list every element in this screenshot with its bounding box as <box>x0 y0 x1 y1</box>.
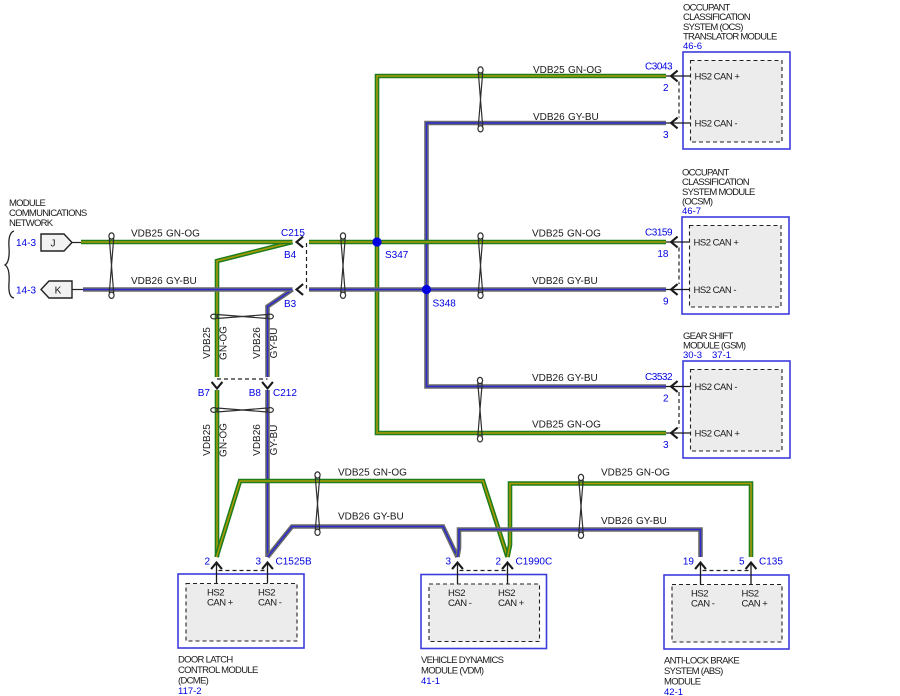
twisted-pair symbol below C212 <box>211 408 274 413</box>
svg-text:GY-BU: GY-BU <box>568 112 599 123</box>
twisted-pair symbol left of C215 <box>109 233 114 299</box>
module GSM title <box>683 331 746 352</box>
svg-text:HS2 CAN +: HS2 CAN + <box>695 429 741 440</box>
label VDB25 GN-OG <box>533 65 602 76</box>
in-line connector C215 pin B4 <box>281 228 305 261</box>
label VDB26 GY-BU <box>532 276 598 287</box>
wire VDB26 GY-BU riser from C3043 pin 3 through S348 to C3532 pin 2 <box>427 123 667 387</box>
svg-text:VDB25: VDB25 <box>533 65 565 76</box>
svg-text:VDB25: VDB25 <box>532 229 564 240</box>
svg-text:B4: B4 <box>284 250 297 261</box>
svg-text:2: 2 <box>663 394 669 405</box>
svg-text:GN-OG: GN-OG <box>373 468 407 479</box>
module OCS translator module page refs <box>683 41 702 52</box>
svg-text:S348: S348 <box>433 299 457 310</box>
svg-text:GN-OG: GN-OG <box>219 326 230 360</box>
svg-text:VDB26: VDB26 <box>252 327 263 359</box>
svg-text:GN-OG: GN-OG <box>568 65 602 76</box>
pin 3 HS2 CAN - of C1990C <box>445 557 471 610</box>
svg-text:CAN +: CAN + <box>498 598 525 609</box>
svg-text:CAN +: CAN + <box>207 598 234 609</box>
svg-text:C3159: C3159 <box>645 228 673 239</box>
wire VDB26 GY-BU from VDM pin 3 to ABS pin 19 <box>458 530 701 558</box>
svg-text:18: 18 <box>657 249 669 260</box>
wire VDB25 GN-OG branch B4 to B7 <box>217 242 293 377</box>
svg-text:C3532: C3532 <box>645 372 673 383</box>
svg-text:VDB25: VDB25 <box>532 420 564 431</box>
wire VDB25 GN-OG from VDM pin 2 to ABS pin 5 <box>508 484 752 558</box>
svg-text:VDB25: VDB25 <box>338 468 370 479</box>
svg-text:SYSTEM (ABS): SYSTEM (ABS) <box>664 666 723 677</box>
in-line connector C212 pin B8 <box>249 382 298 399</box>
connector C3532 dashed line <box>678 392 680 428</box>
pin 3 HS2 CAN + of C3532 <box>663 428 740 451</box>
label VDB25 GN-OG <box>338 468 407 479</box>
svg-text:CONTROL MODULE: CONTROL MODULE <box>178 665 258 676</box>
svg-text:14-3: 14-3 <box>16 238 36 249</box>
twisted-pair symbol above C212 <box>211 314 274 319</box>
svg-text:37-1: 37-1 <box>712 350 731 361</box>
svg-text:HS2 CAN -: HS2 CAN - <box>695 119 738 130</box>
svg-text:117-2: 117-2 <box>178 686 202 696</box>
module OCS translator module title <box>683 2 777 42</box>
pin 2 HS2 CAN + of C1525B <box>204 557 233 609</box>
svg-text:VDB25: VDB25 <box>601 468 633 479</box>
svg-text:41-1: 41-1 <box>421 676 440 687</box>
wire VDB25 GN-OG from J to C215 B4 <box>81 240 293 245</box>
brace for module communications network <box>5 231 14 298</box>
connector C1525B dashed line <box>219 570 266 572</box>
svg-text:VDB26: VDB26 <box>533 112 565 123</box>
svg-text:GY-BU: GY-BU <box>636 516 667 527</box>
svg-text:GY-BU: GY-BU <box>373 512 404 523</box>
pin 2 HS2 CAN + of C3043 <box>663 71 740 94</box>
module VDM box <box>421 575 547 649</box>
wire VDB26 GY-BU from DCME pin 3 to VDM pin 3 <box>268 527 458 558</box>
svg-text:CAN +: CAN + <box>742 599 769 610</box>
svg-text:2: 2 <box>663 83 669 94</box>
wire VDB26 GY-BU from K to C215 B3 <box>83 287 293 292</box>
svg-text:DOOR LATCH: DOOR LATCH <box>178 655 233 666</box>
twisted-pair symbol between S348 and C3159 <box>478 233 483 299</box>
module DCME title <box>178 655 258 687</box>
svg-text:MODULE (VDM): MODULE (VDM) <box>421 666 484 677</box>
svg-text:HS2 CAN +: HS2 CAN + <box>695 72 741 83</box>
wire VDB25 GN-OG from C215 to C3159 pin 18 <box>309 240 666 245</box>
svg-text:C3043: C3043 <box>645 62 673 73</box>
connector tag K <box>41 281 83 298</box>
module ABS module box <box>664 575 789 649</box>
label VDB26 GY-BU <box>338 512 404 523</box>
svg-text:GN-OG: GN-OG <box>166 229 200 240</box>
svg-text:VDB26: VDB26 <box>532 373 564 384</box>
svg-text:C135: C135 <box>759 557 783 568</box>
svg-text:C215: C215 <box>281 228 305 239</box>
connector C135 dashed line <box>703 570 750 572</box>
svg-text:3: 3 <box>255 557 261 568</box>
svg-text:VEHICLE DYNAMICS: VEHICLE DYNAMICS <box>421 655 504 666</box>
wire VDB26 GY-BU from C215 to C3159 pin 9 <box>309 287 666 292</box>
module OCSM box <box>682 217 789 314</box>
svg-text:GY-BU: GY-BU <box>166 276 197 287</box>
pin 9 HS2 CAN - of C3159 <box>663 284 736 307</box>
svg-text:C1990C: C1990C <box>516 557 553 568</box>
pin 3 HS2 CAN - of C3043 <box>663 118 737 141</box>
twisted-pair symbol between VDM and ABS <box>578 474 583 538</box>
svg-text:K: K <box>55 286 62 297</box>
svg-text:HS2 CAN -: HS2 CAN - <box>694 285 737 296</box>
pin 2 HS2 CAN + of C1990C <box>495 557 524 610</box>
svg-text:ANTI-LOCK BRAKE: ANTI-LOCK BRAKE <box>664 656 739 667</box>
label VDB25 GN-OG <box>532 420 601 431</box>
svg-text:C1525B: C1525B <box>276 557 312 568</box>
svg-text:CAN -: CAN - <box>691 599 715 610</box>
svg-text:VDB25: VDB25 <box>202 327 213 359</box>
svg-text:3: 3 <box>663 130 669 141</box>
module OCSM title <box>682 167 755 207</box>
label VDB25 GN-OG <box>532 229 601 240</box>
svg-text:2: 2 <box>495 557 501 568</box>
svg-text:46-6: 46-6 <box>683 41 702 52</box>
splice S347 <box>372 237 408 261</box>
connector tag J <box>41 234 81 251</box>
twisted-pair symbol on top pair to C3043 <box>478 67 483 132</box>
label VDB25 GN-OG <box>601 468 670 479</box>
svg-text:GY-BU: GY-BU <box>567 276 598 287</box>
wire VDB26 GY-BU branch B3 to B8 <box>268 290 293 378</box>
svg-text:9: 9 <box>663 297 669 308</box>
svg-text:B7: B7 <box>198 388 211 399</box>
svg-text:46-7: 46-7 <box>682 206 701 217</box>
twisted-pair symbol between C215 and S347 <box>340 233 345 299</box>
svg-text:GY-BU: GY-BU <box>269 425 280 456</box>
svg-text:VDB26: VDB26 <box>131 276 163 287</box>
svg-text:GN-OG: GN-OG <box>219 423 230 457</box>
svg-text:5: 5 <box>739 557 745 568</box>
wire VDB26 GY-BU from B8 to DCME pin 3 <box>265 390 270 557</box>
svg-text:GN-OG: GN-OG <box>567 229 601 240</box>
label VDB25 GN-OG <box>131 229 200 240</box>
svg-text:GN-OG: GN-OG <box>567 420 601 431</box>
svg-text:19: 19 <box>683 557 695 568</box>
svg-text:GY-BU: GY-BU <box>567 373 598 384</box>
svg-text:VDB26: VDB26 <box>338 512 370 523</box>
label VDB26 GY-BU <box>532 373 598 384</box>
twisted-pair symbol on pair to C3532 <box>477 377 482 442</box>
svg-text:C212: C212 <box>273 388 297 399</box>
connector C3043 dashed line <box>678 82 680 118</box>
svg-text:B3: B3 <box>284 299 297 310</box>
svg-text:3: 3 <box>445 557 451 568</box>
module VDM title <box>421 655 504 677</box>
module OCS translator module box <box>683 52 790 149</box>
svg-text:VDB25: VDB25 <box>131 229 163 240</box>
svg-text:VDB26: VDB26 <box>601 516 633 527</box>
svg-text:CAN -: CAN - <box>258 598 282 609</box>
in-line connector C215 pin B3 <box>284 284 303 310</box>
module GSM page refs <box>683 350 731 361</box>
svg-text:MODULE: MODULE <box>664 677 701 688</box>
svg-text:NETWORK: NETWORK <box>9 218 54 229</box>
splice S348 <box>422 285 456 310</box>
svg-text:HS2 CAN +: HS2 CAN + <box>694 238 740 249</box>
svg-text:VDB26: VDB26 <box>252 424 263 456</box>
pin 5 HS2 CAN + of C135 <box>739 557 768 610</box>
svg-text:14-3: 14-3 <box>16 286 36 297</box>
label MODULE COMMUNICATIONS NETWORK <box>9 198 87 229</box>
label VDB26 GY-BU <box>533 112 599 123</box>
connector C1990C dashed line <box>460 570 506 572</box>
label VDB26 GY-BU <box>601 516 667 527</box>
pin 19 HS2 CAN - of C135 <box>683 557 715 610</box>
module GSM box <box>683 361 790 458</box>
pin 2 HS2 CAN - of C3532 <box>663 381 737 404</box>
connector C3159 dashed line <box>678 248 680 285</box>
svg-text:(DCME): (DCME) <box>178 676 209 687</box>
svg-text:VDB26: VDB26 <box>532 276 564 287</box>
svg-text:3: 3 <box>663 440 669 451</box>
svg-text:J: J <box>51 239 56 250</box>
pin 18 HS2 CAN + of C3159 <box>657 237 739 260</box>
svg-text:2: 2 <box>204 557 210 568</box>
svg-text:42-1: 42-1 <box>664 687 683 696</box>
module OCSM page refs <box>682 206 701 217</box>
wire VDB25 GN-OG from DCME pin 2 to VDM pin 2 <box>217 481 508 557</box>
svg-text:CAN -: CAN - <box>448 598 472 609</box>
connector C212 dashed line <box>217 378 268 380</box>
svg-text:S347: S347 <box>385 250 409 261</box>
svg-text:30-3: 30-3 <box>683 350 702 361</box>
wire VDB25 GN-OG from B7 to DCME pin 2 <box>215 390 220 557</box>
label VDB26 GY-BU <box>131 276 197 287</box>
module ABS module title <box>664 656 739 688</box>
pin 3 HS2 CAN - of C1525B <box>255 557 281 609</box>
svg-text:GY-BU: GY-BU <box>269 328 280 359</box>
module DCME box <box>178 574 304 648</box>
connector C215 dashed line <box>306 243 308 289</box>
svg-text:GN-OG: GN-OG <box>636 468 670 479</box>
in-line connector C212 pin B7 <box>198 382 223 399</box>
svg-text:B8: B8 <box>249 388 262 399</box>
svg-text:HS2 CAN -: HS2 CAN - <box>695 382 738 393</box>
wire VDB25 GN-OG riser from C3043 pin 2 through S347 to C3532 pin 3 <box>377 76 666 433</box>
twisted-pair symbol between DCME and VDM <box>315 472 320 536</box>
svg-text:VDB25: VDB25 <box>202 424 213 456</box>
